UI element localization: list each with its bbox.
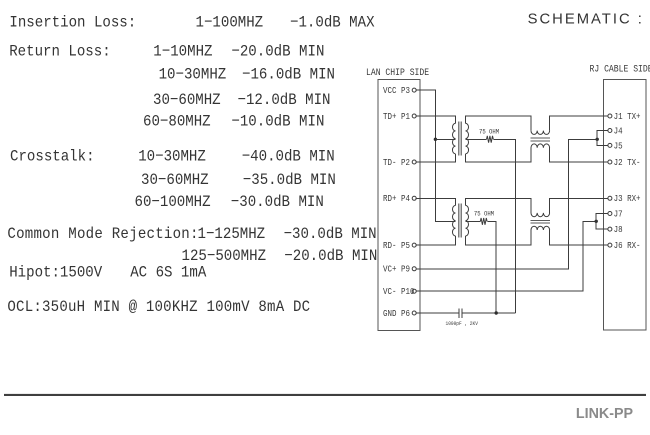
transformer T1 primary winding	[452, 123, 455, 154]
svg-text:1−100MHZ: 1−100MHZ	[196, 13, 264, 32]
transformer T1 core	[459, 122, 461, 156]
wire T2 secondary top to CMC L2	[466, 198, 532, 213]
spec text: Insertion Loss row	[9, 13, 374, 32]
pin circle P9	[412, 267, 416, 271]
spec text: Hipot row	[9, 263, 207, 282]
svg-text:1−125MHZ: 1−125MHZ	[198, 224, 266, 243]
pin circle P3	[412, 88, 416, 92]
wire T1 primary center tap	[435, 138, 455, 140]
svg-text:30−60MHZ: 30−60MHZ	[153, 90, 221, 109]
svg-text:J2 TX-: J2 TX-	[614, 158, 641, 168]
junction dot TX center tap	[434, 138, 437, 141]
svg-text:75 OHM: 75 OHM	[474, 210, 494, 218]
svg-text:J3 RX+: J3 RX+	[614, 195, 641, 205]
svg-text:RD+ P4: RD+ P4	[383, 195, 410, 205]
wire T1 secondary center tap to resistor R1	[466, 138, 487, 140]
pin circle J4	[608, 129, 612, 133]
svg-text:SCHEMATIC :: SCHEMATIC :	[528, 11, 644, 27]
pin circle J3	[608, 196, 612, 200]
wire CMC L1 top to J1 TX+	[550, 116, 608, 131]
svg-text:1−10MHZ: 1−10MHZ	[153, 42, 212, 61]
svg-text:VC+ P9: VC+ P9	[383, 265, 410, 275]
pin circle P5	[412, 243, 416, 247]
pin circle P2	[412, 160, 416, 164]
wire bracket J7 J8	[596, 214, 608, 230]
pin circle J2	[608, 160, 612, 164]
svg-text:TD- P2: TD- P2	[383, 158, 410, 168]
wire TD+ P1 to T1 primary top	[416, 116, 456, 123]
svg-text:VC- P10: VC- P10	[383, 288, 414, 298]
svg-text:30−60MHZ: 30−60MHZ	[141, 170, 209, 189]
junction dot J7 J8	[595, 220, 598, 223]
svg-text:−40.0dB MIN: −40.0dB MIN	[242, 147, 335, 166]
wire R2 to cap node	[488, 221, 497, 313]
svg-text:J4: J4	[614, 127, 623, 137]
capacitor C1 plates	[459, 308, 462, 318]
svg-text:−20.0dB MIN: −20.0dB MIN	[284, 246, 377, 265]
spec text: OCL row	[7, 297, 310, 316]
svg-text:GND P6: GND P6	[383, 309, 410, 319]
svg-text:LAN CHIP SIDE: LAN CHIP SIDE	[366, 66, 430, 78]
svg-text:75 OHM: 75 OHM	[479, 128, 499, 136]
pin circle P6	[412, 311, 416, 315]
svg-text:AC 6S 1mA: AC 6S 1mA	[130, 263, 207, 282]
svg-text:J7: J7	[614, 210, 623, 220]
svg-text:LINK-PP: LINK-PP	[576, 406, 634, 422]
svg-text:RJ CABLE SIDE: RJ CABLE SIDE	[590, 63, 650, 75]
wire R1 to cap node	[494, 139, 516, 313]
wire RD- P5 to T2 primary bottom	[416, 236, 456, 245]
wire capacitor C1 to resistor verticals	[462, 312, 515, 314]
svg-text:RD- P5: RD- P5	[383, 241, 410, 251]
svg-text:60−100MHZ: 60−100MHZ	[135, 192, 211, 211]
wire VCC P3 to center taps	[416, 90, 456, 221]
svg-text:−1.0dB MAX: −1.0dB MAX	[290, 13, 375, 32]
pin circle P4	[412, 196, 416, 200]
junction dot J4 J5	[596, 138, 599, 141]
choke L1 top winding	[531, 131, 550, 135]
transformer T1 secondary winding	[466, 123, 469, 154]
RJ cable box J1	[604, 80, 647, 331]
pin circle P1	[412, 114, 416, 118]
pin circle J7	[608, 212, 612, 216]
svg-text:−10.0dB MIN: −10.0dB MIN	[231, 112, 324, 131]
svg-text:Return Loss:: Return Loss:	[9, 42, 110, 61]
wire T2 secondary bottom to CMC L2	[466, 230, 532, 245]
svg-text:10−30MHZ: 10−30MHZ	[159, 65, 227, 84]
pin circle J8	[608, 227, 612, 231]
spec text: Common Mode Rejection rows	[7, 224, 377, 265]
svg-text:Insertion Loss:: Insertion Loss:	[9, 13, 136, 32]
spec text: Crosstalk rows	[10, 147, 336, 211]
wire T1 secondary bottom to CMC L1	[466, 148, 532, 162]
spec text: Return Loss rows	[9, 42, 335, 131]
svg-text:TD+ P1: TD+ P1	[383, 112, 410, 122]
footer rule	[4, 394, 646, 396]
svg-text:−30.0dB MIN: −30.0dB MIN	[284, 224, 377, 243]
wire VC- P10 to J7 J8	[416, 221, 596, 291]
svg-text:VCC P3: VCC P3	[383, 86, 410, 96]
transformer T2 secondary winding	[466, 205, 469, 236]
wire T2 secondary center tap to resistor R2	[466, 220, 481, 222]
svg-text:10−30MHZ: 10−30MHZ	[138, 147, 206, 166]
LAN chip box U1	[378, 80, 420, 331]
svg-text:Common Mode Rejection:: Common Mode Rejection:	[7, 224, 198, 243]
wire CMC L2 top to J3 RX+	[550, 198, 608, 213]
pin circle P10	[412, 289, 416, 293]
pin circle J6	[608, 243, 612, 247]
svg-text:J8: J8	[614, 225, 623, 235]
svg-text:OCL:350uH MIN @ 100KHZ 100mV 8: OCL:350uH MIN @ 100KHZ 100mV 8mA DC	[7, 297, 310, 316]
resistor R2 75 OHM zigzag	[480, 218, 487, 225]
wire TD- P2 to T1 primary bottom	[416, 154, 456, 162]
wire bracket J4 J5	[597, 131, 608, 146]
choke L2 top winding	[531, 213, 550, 217]
svg-text:J6 RX-: J6 RX-	[614, 241, 641, 251]
svg-text:−16.0dB MIN: −16.0dB MIN	[242, 65, 335, 84]
wire RD+ P4 to T2 primary top	[416, 198, 456, 205]
svg-text:−35.0dB MIN: −35.0dB MIN	[243, 170, 336, 189]
wire T1 secondary top to CMC L1	[466, 116, 532, 131]
choke L2 bottom winding	[531, 226, 550, 230]
svg-text:−12.0dB MIN: −12.0dB MIN	[238, 90, 331, 109]
choke L1 bottom winding	[531, 144, 550, 148]
wire CMC L1 bottom to J2 TX-	[550, 148, 608, 162]
transformer T2 core	[459, 204, 461, 238]
svg-text:J5: J5	[614, 142, 623, 152]
choke L1 core	[531, 138, 551, 141]
svg-text:Hipot:1500V: Hipot:1500V	[9, 263, 102, 282]
transformer T2 primary winding	[452, 205, 455, 236]
resistor R1 75 OHM zigzag	[487, 136, 494, 143]
svg-text:60−80MHZ: 60−80MHZ	[143, 112, 211, 131]
junction dot cap node	[495, 311, 498, 314]
pin circle J5	[608, 143, 612, 147]
svg-text:−30.0dB MIN: −30.0dB MIN	[231, 192, 324, 211]
wire GND P6 to capacitor C1	[416, 312, 460, 314]
pin circle J1	[608, 114, 612, 118]
wire CMC L2 bottom to J6 RX-	[550, 230, 608, 245]
wire VC+ P9 to J4 J5	[416, 139, 597, 268]
svg-text:1000pF , 2KV: 1000pF , 2KV	[446, 321, 478, 328]
choke L2 core	[531, 220, 551, 223]
svg-text:−20.0dB MIN: −20.0dB MIN	[231, 42, 324, 61]
svg-text:Crosstalk:: Crosstalk:	[10, 147, 95, 166]
svg-text:J1 TX+: J1 TX+	[614, 112, 641, 122]
